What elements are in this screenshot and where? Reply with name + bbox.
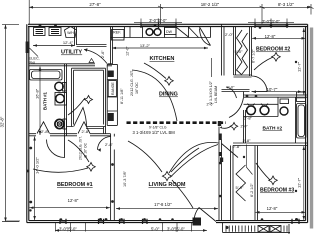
wire arcs bed1 bbox=[68, 140, 89, 162]
bed1 door on V4 bbox=[98, 137, 111, 150]
wire arcs living bbox=[169, 142, 219, 173]
svg-text:BEDROOM #2: BEDROOM #2 bbox=[256, 47, 290, 53]
kitchen back door bbox=[200, 27, 211, 46]
svg-text:BEDROOM #3: BEDROOM #3 bbox=[260, 188, 294, 194]
bed2 closet zigzag bbox=[237, 30, 243, 75]
svg-text:12'-7": 12'-7" bbox=[297, 61, 302, 72]
front door leaf bbox=[194, 208, 216, 222]
svg-text:RANGE: RANGE bbox=[111, 82, 115, 95]
svg-text:10'-7": 10'-7" bbox=[267, 87, 278, 92]
bath1 toilet 2 bbox=[55, 119, 64, 128]
wall living/hall V5 top bbox=[222, 24, 225, 75]
exterior wall top bbox=[28, 24, 308, 26]
wall hall north bbox=[222, 90, 250, 92]
counter cell diagonal bbox=[176, 27, 199, 38]
svg-text:KITCHEN: KITCHEN bbox=[150, 56, 175, 62]
dim bed2 10-7 bbox=[252, 91, 302, 93]
right margin gray band bbox=[310, 28, 313, 229]
faucet ticks bbox=[248, 104, 269, 106]
dim bed3 width bbox=[256, 211, 306, 213]
dim bottom row bbox=[55, 229, 207, 231]
wall bath1 east bbox=[65, 64, 67, 136]
svg-text:2'-8": 2'-8" bbox=[243, 138, 252, 143]
porch X boxes bbox=[258, 226, 269, 233]
wall closet south w/ door gap bbox=[67, 127, 106, 129]
svg-text:12'-8": 12'-8" bbox=[265, 34, 276, 39]
svg-text:5'-0": 5'-0" bbox=[151, 227, 160, 232]
bed3 closet zigzag bbox=[236, 165, 246, 201]
svg-text:32'-8": 32'-8" bbox=[0, 116, 5, 127]
svg-text:BATH #1: BATH #1 bbox=[43, 91, 48, 110]
svg-text:DINING: DINING bbox=[159, 92, 178, 98]
svg-text:16'-8": 16'-8" bbox=[35, 88, 40, 99]
cabinet dark blobs bbox=[108, 71, 114, 78]
wall bed2 south bbox=[244, 95, 308, 97]
svg-text:2X12 CLG. JST.: 2X12 CLG. JST. bbox=[79, 136, 83, 160]
svg-text:5'-0": 5'-0" bbox=[235, 49, 244, 54]
exterior wall left bbox=[27, 24, 29, 222]
svg-text:BATH #2: BATH #2 bbox=[263, 126, 283, 132]
front door threshold bbox=[193, 218, 202, 226]
closet light bbox=[85, 96, 93, 104]
window glazing lines bbox=[60, 25, 287, 221]
dim left foot bottom bbox=[6, 220, 20, 222]
svg-text:10'-3 7/8": 10'-3 7/8" bbox=[123, 170, 127, 187]
svg-text:3 1-3/4X9 1/2" LVL BM: 3 1-3/4X9 1/2" LVL BM bbox=[133, 130, 176, 135]
svg-text:2'-8": 2'-8" bbox=[233, 144, 242, 149]
attic marker bbox=[89, 59, 94, 63]
svg-text:12'-7": 12'-7" bbox=[297, 177, 302, 188]
svg-text:6'-2 1/2": 6'-2 1/2" bbox=[250, 182, 254, 197]
kitchen ref box bbox=[112, 30, 125, 41]
svg-text:14'-0 1/2": 14'-0 1/2" bbox=[35, 157, 40, 174]
kitchen DW box bbox=[165, 28, 177, 35]
closet inner door arc bbox=[74, 108, 87, 127]
wall utility south bbox=[29, 64, 112, 66]
window ticks bbox=[60, 23, 299, 224]
svg-text:W/H: W/H bbox=[67, 31, 74, 35]
bath1 tub bbox=[30, 70, 63, 81]
svg-text:2'-8": 2'-8" bbox=[105, 142, 114, 147]
elec arrow bbox=[30, 48, 39, 57]
dim row1 top bbox=[29, 6, 311, 8]
svg-text:8'-11 1/8": 8'-11 1/8" bbox=[120, 88, 124, 104]
wire beam to star bbox=[220, 127, 231, 129]
bath1 sink bbox=[55, 93, 67, 106]
svg-text:12'-0": 12'-0" bbox=[126, 46, 130, 56]
hall light star bbox=[230, 123, 237, 130]
svg-text:@ 16" OC: @ 16" OC bbox=[84, 142, 88, 158]
svg-text:16" OC: 16" OC bbox=[135, 82, 139, 94]
svg-text:PNL.: PNL. bbox=[29, 60, 38, 65]
svg-text:9'-1/8" CLG: 9'-1/8" CLG bbox=[149, 125, 167, 129]
svg-text:27'-8": 27'-8" bbox=[89, 2, 101, 7]
svg-text:DW: DW bbox=[166, 30, 173, 34]
wall bed2 closet west bbox=[234, 27, 236, 76]
svg-text:6'-7 1/2": 6'-7 1/2" bbox=[252, 48, 256, 63]
svg-text:3'-0"|3'-0": 3'-0"|3'-0" bbox=[149, 18, 167, 23]
exterior wall bottom bbox=[27, 221, 308, 223]
dashed LVL beam bbox=[127, 121, 227, 124]
wall bed3 closet west bbox=[231, 146, 234, 221]
dim dining 8-0 vert bbox=[211, 58, 213, 77]
dim row2 bed2 windows bbox=[248, 19, 294, 27]
svg-text:3'-0"|5'-0": 3'-0"|5'-0" bbox=[167, 227, 185, 232]
bath2 tub bbox=[297, 104, 307, 139]
kitchen sink bbox=[146, 29, 153, 36]
svg-text:5'-0": 5'-0" bbox=[236, 185, 245, 190]
svg-text:17'-8 1/2": 17'-8 1/2" bbox=[154, 202, 172, 207]
ceiling fan living bbox=[162, 172, 171, 181]
bath1 toilet 1 bbox=[55, 82, 63, 90]
exterior wall right bbox=[306, 24, 308, 222]
bed2 door arc bbox=[252, 76, 268, 92]
wall bath2 south bbox=[233, 143, 308, 146]
wall bed1/living V4 bbox=[111, 134, 115, 221]
svg-text:3'-0"|5'-0": 3'-0"|5'-0" bbox=[59, 227, 77, 232]
dining big arc bbox=[132, 70, 177, 121]
bath2 toilet bbox=[280, 107, 288, 115]
dining door on V5 bbox=[226, 87, 237, 98]
wire arc bath1 bbox=[68, 98, 85, 115]
bath2 door arc bbox=[229, 98, 244, 118]
utility washer dryer bbox=[34, 28, 46, 36]
svg-text:2'-0": 2'-0" bbox=[241, 125, 249, 129]
kitchen counter bbox=[111, 27, 211, 38]
closet door swing bbox=[78, 122, 90, 134]
wall bed3 west bbox=[255, 146, 258, 221]
dim bed2 height right bbox=[303, 28, 305, 95]
wall utility east / closet jog bbox=[75, 27, 113, 65]
dim utility 12-4 bbox=[33, 45, 75, 47]
range box bbox=[108, 81, 116, 97]
dim bath1 16-8 bbox=[39, 67, 41, 136]
dim row2 kitchen windows bbox=[134, 19, 182, 27]
water heater pentagon bbox=[65, 27, 77, 38]
bath1 door swing bbox=[37, 122, 50, 134]
svg-text:18'-2 1/2": 18'-2 1/2" bbox=[201, 2, 220, 7]
wire arc dining bbox=[144, 63, 166, 79]
svg-text:LVL BEAM: LVL BEAM bbox=[214, 86, 218, 103]
wire arc bed2 bbox=[254, 57, 273, 70]
wall hall/bed1 divider H3 bbox=[29, 134, 111, 136]
svg-text:UTILITY: UTILITY bbox=[61, 50, 82, 56]
beam end junction bbox=[218, 121, 221, 126]
wall bath2 west bbox=[244, 92, 246, 144]
wall bed2 west bbox=[250, 27, 252, 77]
svg-text:2'-6": 2'-6" bbox=[207, 103, 215, 107]
ceiling fan bed1 bbox=[87, 163, 96, 172]
kitchen west cabinet column bbox=[107, 64, 117, 125]
svg-text:2 1-3/4X9 1/2": 2 1-3/4X9 1/2" bbox=[209, 80, 213, 104]
svg-text:13'-2": 13'-2" bbox=[140, 43, 151, 48]
wall closet outline bbox=[72, 68, 106, 126]
wall bath2 tub west bbox=[295, 97, 297, 143]
svg-text:2'-8": 2'-8" bbox=[244, 116, 253, 121]
svg-text:3'-0"|3'-0": 3'-0"|3'-0" bbox=[262, 19, 280, 24]
svg-text:2'-0": 2'-0" bbox=[225, 32, 234, 37]
svg-text:LIVING ROOM: LIVING ROOM bbox=[149, 182, 186, 188]
bath2 vanity bbox=[244, 97, 279, 116]
svg-text:2'-6": 2'-6" bbox=[101, 50, 105, 58]
svg-text:BEDROOM #1: BEDROOM #1 bbox=[57, 182, 93, 188]
dim bed1 width bbox=[30, 207, 111, 209]
ceiling fan dining bbox=[165, 77, 174, 86]
ceiling fan bed2 bbox=[272, 53, 281, 62]
bed1 entry door arc bbox=[47, 136, 65, 158]
svg-text:12'-8": 12'-8" bbox=[68, 198, 79, 203]
linen closet bbox=[297, 92, 306, 102]
dim kitchen 13-2 bbox=[112, 47, 208, 49]
dim bed3 height right bbox=[303, 146, 305, 220]
wall living/hall V5 bottom bbox=[219, 127, 222, 221]
svg-text:REF.: REF. bbox=[113, 31, 121, 35]
wall bed2 closet south bbox=[234, 75, 252, 77]
utility door arc bbox=[84, 50, 107, 64]
svg-text:12'-4": 12'-4" bbox=[63, 40, 74, 45]
porch hatch bbox=[223, 223, 291, 234]
dim living width bbox=[116, 208, 218, 210]
dim left outer bbox=[2, 25, 19, 222]
bed3 closet dim bbox=[246, 145, 252, 175]
svg-text:2X12 CLG. JST.: 2X12 CLG. JST. bbox=[130, 70, 134, 96]
dim bed1 height bbox=[34, 137, 36, 221]
hall door leaf bbox=[222, 144, 239, 158]
svg-text:7'-0": 7'-0" bbox=[227, 85, 236, 90]
svg-text:12'-8": 12'-8" bbox=[267, 206, 278, 211]
svg-text:2'-8": 2'-8" bbox=[41, 129, 50, 134]
wire arc bed3 bbox=[256, 163, 270, 180]
wall closet to H3 connector bbox=[104, 127, 106, 134]
ceiling fan bed3 bbox=[269, 176, 278, 185]
svg-text:2'-8": 2'-8" bbox=[82, 129, 91, 134]
dim bed2 width bbox=[252, 37, 306, 39]
svg-text:8'-3 1/2": 8'-3 1/2" bbox=[278, 2, 295, 7]
